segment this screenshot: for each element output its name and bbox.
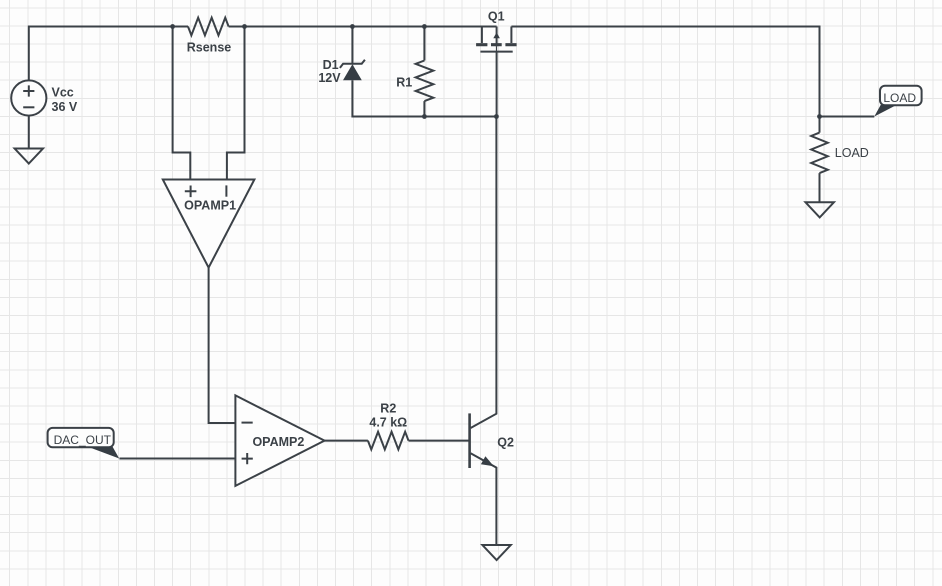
svg-text:12V: 12V <box>318 71 341 85</box>
svg-text:OPAMP2: OPAMP2 <box>252 435 304 449</box>
svg-text:36 V: 36 V <box>52 100 78 114</box>
svg-text:LOAD: LOAD <box>883 91 916 105</box>
svg-text:4.7 kΩ: 4.7 kΩ <box>369 415 407 429</box>
svg-text:DAC_OUT: DAC_OUT <box>54 433 112 447</box>
svg-text:OPAMP1: OPAMP1 <box>184 199 236 213</box>
svg-text:Q1: Q1 <box>488 9 505 23</box>
svg-text:LOAD: LOAD <box>835 146 869 160</box>
svg-text:Vcc: Vcc <box>52 86 74 100</box>
svg-text:Q2: Q2 <box>497 435 514 449</box>
svg-text:Rsense: Rsense <box>187 41 232 55</box>
svg-text:R1: R1 <box>396 75 412 89</box>
svg-text:R2: R2 <box>380 401 396 415</box>
